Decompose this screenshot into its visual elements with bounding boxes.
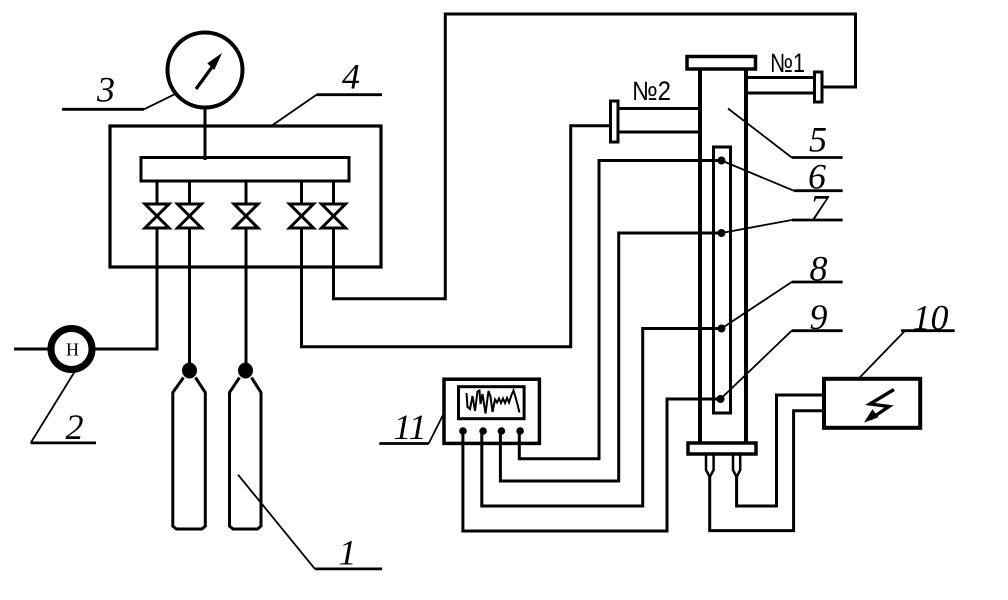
sensor wire to dot 6 / oscilloscope terminal 4 (519, 161, 721, 459)
svg-text:№1: №1 (770, 48, 805, 78)
manifold bar (141, 158, 349, 182)
pressure gauge 3 (168, 33, 243, 108)
wire: valve2 stem down to cylinder 1a (188, 228, 191, 363)
wire: valve1 stem down to flow meter line (14, 228, 157, 349)
gauge stem (204, 108, 207, 161)
column right wall (744, 69, 748, 443)
column left wall (698, 69, 702, 443)
column bottom flange (688, 443, 756, 454)
label No2 (632, 76, 671, 106)
label 9 (810, 297, 828, 337)
svg-text:H: H (66, 340, 79, 360)
wire: valve4 stem to port No2 (302, 126, 613, 347)
valve V3 (245, 181, 248, 204)
svg-text:3: 3 (96, 70, 115, 110)
sensor wire to dot 8 / terminal 2 (482, 329, 722, 507)
label 1 (339, 533, 357, 573)
oscilloscope terminal 2 (479, 427, 487, 435)
label 5 (809, 120, 827, 160)
port No2 pipe (619, 107, 701, 110)
oscilloscope waveform (467, 391, 520, 414)
svg-text:5: 5 (809, 120, 827, 160)
svg-text:7: 7 (810, 188, 830, 228)
column 5: top cap (687, 57, 756, 70)
svg-text:1: 1 (339, 533, 357, 573)
sensor dot 8 (718, 325, 726, 333)
label 10 (913, 298, 949, 338)
svg-text:№2: №2 (632, 76, 671, 106)
wire: left electrode to power source 10 (710, 411, 824, 531)
gauge needle (196, 67, 213, 90)
wire: valve5 stem to port No1 (top long run) (334, 14, 856, 299)
sensor dot 7 (718, 229, 726, 237)
valve V4 (300, 181, 303, 204)
gas cylinder 1b (238, 363, 253, 379)
electrode left under column (706, 454, 714, 477)
manifold box 4 (110, 126, 381, 267)
wire: valve3 stem down to cylinder 1b (245, 228, 248, 363)
sensor dot 6 (718, 157, 726, 165)
gas cylinder 1a (182, 363, 197, 379)
sensor dot 9 (717, 395, 725, 403)
sensor wire to dot 7 / terminal 3 (500, 233, 721, 481)
sensor wire to dot 9 / terminal 1 (463, 399, 721, 531)
wire: right electrode to power source 10 (737, 395, 824, 506)
oscilloscope 11 box (444, 379, 539, 443)
label 2 (66, 407, 84, 447)
oscilloscope terminal 4 (516, 427, 524, 435)
port No1 pipe (746, 76, 815, 79)
oscilloscope screen (459, 387, 525, 419)
valve V2 (188, 181, 191, 204)
label 11 (393, 407, 426, 447)
label No1 (770, 48, 805, 78)
label 8 (810, 249, 828, 289)
svg-text:4: 4 (342, 57, 360, 97)
oscilloscope terminal 1 (459, 427, 467, 435)
valve V5 (332, 181, 335, 204)
inner tube 6 (714, 147, 731, 413)
svg-text:11: 11 (393, 407, 426, 447)
label 3 (96, 70, 115, 110)
label 4 (342, 57, 360, 97)
lightning bolt (870, 390, 894, 420)
label 7 (810, 188, 830, 228)
electrode right under column (733, 454, 740, 477)
svg-text:2: 2 (66, 407, 84, 447)
valve V1 (156, 181, 159, 204)
power source 10 box (824, 379, 920, 428)
oscilloscope terminal 3 (498, 427, 506, 435)
label 6 (808, 157, 826, 197)
flow meter 2 (circle H) (51, 329, 92, 370)
